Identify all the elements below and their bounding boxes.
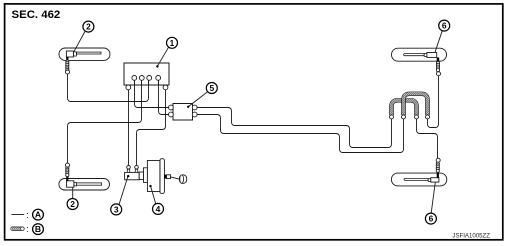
label 2 upper — [74, 21, 94, 52]
pipe: connector 5 bottom-right port to rear hose leg 2 — [197, 115, 404, 153]
label 5 — [187, 83, 217, 109]
svg-text:2: 2 — [70, 199, 75, 209]
svg-text:1: 1 — [170, 38, 175, 48]
label 2 lower — [67, 188, 78, 210]
ABS actuator unit 1 — [124, 63, 169, 85]
pipe: ABS port 3 to front left upper brake — [68, 74, 149, 102]
master cylinder 3 — [125, 165, 140, 179]
pipe: ABS port 2 to front left lower brake — [68, 81, 142, 164]
svg-text::: : — [26, 224, 29, 234]
svg-text:JSFIA1005ZZ: JSFIA1005ZZ — [452, 233, 490, 240]
hose: rear arch A (legs at x391.5 and x416.5) — [392, 100, 417, 115]
legend row A: brake tube sample — [11, 209, 43, 220]
svg-text:6: 6 — [429, 214, 434, 224]
svg-text:4: 4 — [156, 204, 161, 214]
label 4 — [149, 185, 163, 214]
front left lower brake hose (spring) — [66, 163, 70, 177]
rear right upper brake hose (spring) — [436, 61, 440, 75]
svg-text:SEC. 462: SEC. 462 — [12, 9, 61, 21]
rear right lower brake hose (spring) — [436, 158, 440, 172]
label 6 upper — [435, 20, 450, 52]
pipe: rear hose leg 3 to rear right lower brake — [417, 119, 438, 158]
svg-text:A: A — [35, 210, 41, 220]
label 3 — [111, 175, 130, 215]
svg-text:2: 2 — [86, 22, 91, 32]
pipe: connector 5 top-right port to rear hose leg 1 — [197, 108, 392, 148]
front left upper brake 2 — [59, 48, 110, 61]
svg-text:B: B — [35, 224, 41, 234]
hose leg unions (4 circles) — [390, 115, 430, 119]
front left upper brake hose (spring) — [66, 60, 70, 74]
hose: rear arch B (legs at x403.5 and x427.5) — [404, 94, 428, 115]
label 1 — [156, 37, 177, 67]
pipe: rear hose leg 4 to rear right upper brake — [428, 76, 439, 128]
legend row B: brake hose sample — [11, 224, 44, 235]
pipe: ABS right edge port to master cylinder right port — [137, 90, 166, 166]
svg-text::: : — [26, 210, 29, 220]
brake booster 4 — [139, 159, 187, 194]
rear right lower brake 6 — [391, 173, 446, 186]
label 6 lower — [425, 182, 436, 224]
svg-text:6: 6 — [442, 21, 447, 31]
rear right upper brake 6 — [392, 48, 447, 61]
svg-text:5: 5 — [209, 83, 214, 93]
pipe: ABS left edge port to master cylinder left port — [128, 90, 130, 166]
connector 5 box — [169, 104, 198, 121]
pipe: ABS port 1 to connector 5 top-left port — [135, 81, 169, 108]
pipe: ABS port 4 to connector 5 bottom-left port — [159, 81, 169, 115]
svg-text:3: 3 — [114, 205, 119, 215]
front left lower brake 2 — [59, 176, 110, 190]
ABS actuator ports — [126, 76, 168, 90]
